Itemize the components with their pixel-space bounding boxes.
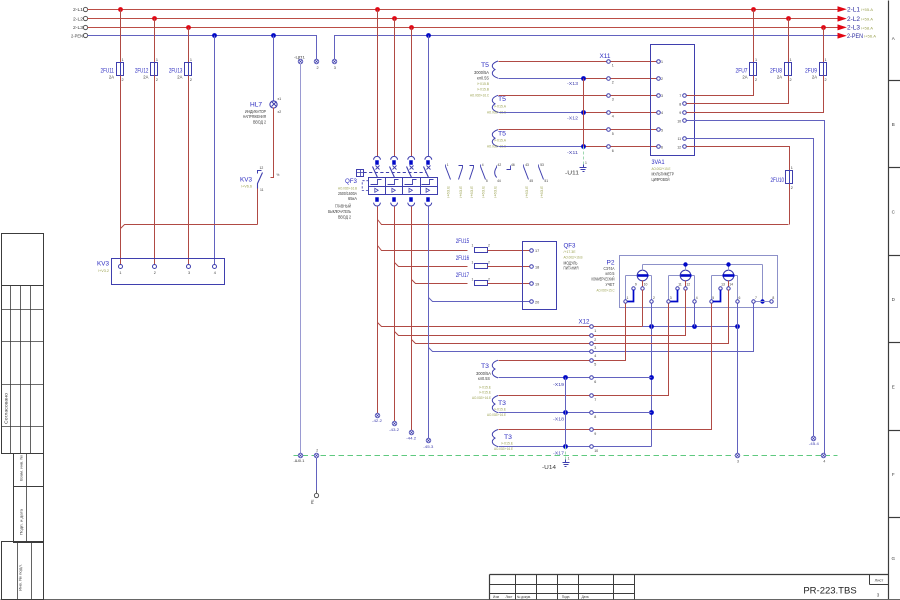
svg-text:17: 17 [535, 249, 539, 253]
terminal -45.3 [423, 438, 433, 449]
svg-text:2-PEN: 2-PEN [71, 34, 83, 39]
svg-text:2А: 2А [177, 74, 182, 79]
junction on bus for 2FU11 [118, 7, 123, 12]
svg-text:ЦИФРОВОЙ: ЦИФРОВОЙ [652, 177, 670, 182]
svg-text:9: 9 [594, 432, 596, 436]
ground bus PE (green dashed) [294, 455, 838, 457]
wire bus 2-PEN left segment [88, 36, 317, 60]
wire T3c S1 to X12:9 [499, 429, 590, 431]
circuit breaker QF3 2500/1600A main switch [328, 156, 438, 219]
wire X12:7 to meter 3 [594, 304, 669, 396]
svg-text:-Х12: -Х12 [567, 115, 579, 120]
junction on bus for 2FU7 [751, 7, 756, 12]
node 2-L1 incoming terminal [83, 7, 87, 11]
svg-text:-Х19: -Х19 [553, 382, 565, 387]
svg-text:2: 2 [594, 338, 596, 342]
svg-text:2: 2 [488, 260, 490, 264]
svg-text:G: G [892, 556, 896, 561]
svg-text:QF3: QF3 [345, 178, 358, 185]
meter jumper 3-11 [671, 290, 678, 302]
wire branch pole1 to 2FU10 net [378, 220, 789, 225]
svg-text:2FU10: 2FU10 [771, 177, 785, 184]
svg-text:53: 53 [540, 163, 544, 167]
wire 2FU11 to relay KV3 terminal [120, 76, 122, 265]
svg-text:%: % [277, 173, 280, 177]
wire L1 to QF3 pole 1 [375, 7, 380, 12]
svg-text:12: 12 [686, 283, 690, 287]
title block [490, 575, 889, 600]
svg-text:1: 1 [119, 271, 121, 275]
svg-text:5: 5 [712, 296, 714, 300]
wire branch pole3 to fuse 2FU17 [412, 280, 468, 284]
wire ground bus to PE stud [316, 458, 318, 491]
junction on bus for 2FU8 [786, 16, 791, 21]
svg-text:65кА: 65кА [348, 196, 357, 201]
wire T3b S2 to X12:8 via -X18 [499, 412, 590, 414]
wire branch pole2 to fuse 2FU16 [395, 263, 468, 267]
relay KV3 terminal block [97, 259, 225, 285]
wire T5b S1 to X11:3 [499, 95, 607, 97]
svg-text:3: 3 [670, 296, 672, 300]
wire bus to 2FU7 [753, 10, 755, 63]
svg-text:2-L1: 2-L1 [847, 7, 861, 13]
svg-text:/+Х15.В: /+Х15.В [477, 81, 489, 86]
wire T5a S1 to X11:1 [499, 61, 607, 63]
fuse 2FU7 2A [736, 58, 758, 82]
svg-text:10: 10 [644, 283, 648, 287]
multimeter 3VA1 digital [651, 45, 695, 183]
wire X12:9 to meter 5 [594, 304, 712, 430]
svg-text:2: 2 [190, 78, 192, 82]
terminal strip X11 [600, 54, 614, 153]
svg-text:7: 7 [594, 398, 596, 402]
svg-text:1: 1 [661, 60, 663, 64]
svg-text:PR-223.TBS: PR-223.TBS [803, 586, 856, 597]
wire QF3 pole2 down with branches [394, 207, 396, 422]
fuse 2FU10 [771, 166, 793, 190]
svg-text:1: 1 [627, 296, 629, 300]
terminal 4 on ground bus [821, 453, 826, 463]
terminal 3 on ground bus [735, 453, 740, 463]
meter voltage common wire [643, 262, 765, 303]
wire 2FU12 drop [154, 19, 156, 63]
svg-text:5: 5 [486, 179, 488, 183]
svg-text:3: 3 [334, 66, 336, 70]
svg-text:E: E [892, 385, 895, 390]
svg-text:2-L3: 2-L3 [847, 26, 861, 32]
wire CT common link -X13 -X12 -X11 [583, 79, 585, 147]
svg-text:46: 46 [511, 163, 515, 167]
svg-text:45: 45 [529, 179, 533, 183]
fuse 2FU9 2A [805, 58, 827, 82]
arrow 2-L2 out [838, 16, 873, 22]
svg-text:2: 2 [755, 78, 757, 82]
svg-text:1: 1 [585, 161, 587, 165]
svg-text:АО.002/+16.С: АО.002/+16.С [487, 109, 506, 114]
svg-text:/+V6.6: /+V6.6 [241, 184, 252, 189]
svg-text:Лист: Лист [875, 578, 884, 583]
wire T3b S1 to X12:7 [499, 395, 590, 397]
fuse 2FU17 [456, 272, 490, 286]
svg-text:43: 43 [525, 163, 529, 167]
svg-text:Подп.: Подп. [562, 595, 571, 599]
svg-text:Взам. инв. №: Взам. инв. № [20, 455, 24, 481]
wire 2FU10 down to y224 net [789, 184, 791, 225]
wire QF3 pole1 down with branches [377, 207, 379, 414]
svg-text:5: 5 [594, 363, 596, 367]
svg-text:2А: 2А [812, 74, 817, 79]
svg-text:4: 4 [594, 354, 596, 358]
terminal -43.2 [389, 421, 399, 432]
junction -X19 [553, 375, 568, 387]
svg-text:1: 1 [755, 58, 757, 62]
svg-text:2-L2: 2-L2 [847, 17, 861, 23]
wire branch pole3 to X12:3 [412, 340, 590, 344]
svg-text:2А: 2А [777, 74, 782, 79]
node 2-PEN incoming terminal [83, 33, 87, 37]
svg-text:кл0.5: кл0.5 [606, 271, 616, 276]
svg-text:3000/5А: 3000/5А [474, 70, 489, 75]
wire 2FU8 to 3VA1:8 [687, 76, 789, 104]
svg-text:2-L1: 2-L1 [73, 7, 83, 12]
svg-text:/+63.Е: /+63.Е [482, 185, 486, 198]
svg-text:4: 4 [214, 271, 216, 275]
svg-text:10: 10 [594, 449, 598, 453]
wire branch pole4 to module contact 20 [429, 298, 530, 302]
svg-text:2А: 2А [742, 74, 747, 79]
svg-text:Дата: Дата [581, 595, 588, 599]
svg-text:8: 8 [772, 296, 774, 300]
svg-text:1: 1 [791, 166, 793, 170]
fuse 2FU13 2A [169, 58, 192, 82]
current transformer T3 phase A [472, 360, 498, 400]
junction on bus for 2FU9 [821, 25, 826, 30]
svg-text:2-PEN: 2-PEN [847, 34, 863, 40]
power supply module of QF3 [523, 242, 583, 310]
terminal -42.2 [372, 413, 382, 423]
wires X11 to 3VA1 inputs [611, 62, 657, 147]
wire 3VA1:10 to ground bus terminal 4 [687, 121, 825, 454]
svg-text:2А: 2А [143, 74, 148, 79]
svg-text:2: 2 [316, 66, 318, 70]
wire 2FU13 drop [188, 28, 190, 63]
wire QF3 pole4 down with branches [428, 207, 430, 439]
wire T3a S1 to X12:5 [499, 360, 590, 362]
terminal 3 on PEN busbar [332, 59, 337, 70]
junction -X18 [553, 410, 568, 422]
svg-text:14: 14 [729, 283, 733, 287]
wire to ground -U14 (green) [565, 447, 567, 462]
svg-text:/+Х15.Е: /+Х15.Е [494, 407, 506, 412]
svg-text:1: 1 [122, 58, 124, 62]
wire X12:10 extension to common [594, 446, 652, 448]
svg-text:Т3: Т3 [481, 363, 490, 370]
wire bus to 2FU8 [788, 19, 790, 63]
wire T3a S2 to X12:6 via -X19 [499, 377, 590, 379]
wire X12:2 to meter 12 [594, 290, 686, 336]
wire meter 2 common drop [651, 304, 653, 447]
ground -U11 [565, 161, 587, 176]
svg-text:F: F [892, 472, 895, 477]
meter measuring element 3 [712, 265, 738, 300]
svg-text:-44.2: -44.2 [406, 435, 416, 440]
svg-text:18: 18 [535, 266, 539, 270]
wire 3VA1:11 to terminal -45.4 [687, 139, 814, 437]
junction on bus for 2FU13 [186, 25, 191, 30]
junction -X11 [567, 144, 586, 155]
terminal 2 on PEN busbar [314, 59, 319, 70]
current transformer T5 phase C [487, 130, 507, 149]
svg-text:ГЛАВНЫЙ: ГЛАВНЫЙ [335, 203, 351, 208]
svg-text:11: 11 [677, 137, 681, 141]
svg-text:-Х13: -Х13 [567, 81, 579, 86]
svg-text:-Ш0.1: -Ш0.1 [294, 458, 305, 463]
arrow 2-PEN out [838, 33, 876, 40]
wire X12:4 to meter 7 [594, 304, 754, 352]
svg-text:Подп. и дата: Подп. и дата [20, 508, 24, 535]
svg-text:42: 42 [498, 163, 502, 167]
svg-text:-45.4: -45.4 [809, 441, 820, 446]
svg-text:/+55.А: /+55.А [861, 7, 873, 12]
terminal strip X12 [579, 319, 599, 453]
svg-text:12: 12 [260, 166, 264, 170]
svg-text:х1: х1 [278, 97, 282, 101]
wire T5c S2 to X11:6 via -X11 [499, 146, 584, 148]
wire X12:6 extension to common [594, 377, 652, 379]
svg-text:/+63.Е: /+63.Е [494, 185, 498, 198]
svg-text:/+63.Е: /+63.Е [525, 185, 529, 198]
svg-text:3: 3 [594, 346, 596, 350]
svg-text:7: 7 [679, 94, 681, 98]
svg-text:АО.002/+15.С: АО.002/+15.С [597, 287, 615, 292]
svg-text:1: 1 [594, 329, 596, 333]
svg-text:1: 1 [472, 260, 474, 264]
wire PEN to KV3 terminal 4 [214, 36, 216, 265]
wire X12:5 to meter 1 [594, 304, 626, 361]
meter terminals row [624, 283, 775, 304]
svg-text:/+17.3Е: /+17.3Е [564, 249, 576, 254]
svg-text:1: 1 [156, 58, 158, 62]
wire bus 2-L3 [88, 27, 839, 29]
node 2-L3 incoming terminal [83, 25, 87, 29]
arrow 2-L3 out [838, 25, 873, 32]
contact KV3 auxiliary NO [240, 166, 264, 192]
svg-text:4: 4 [823, 459, 825, 463]
wire 2FU11 drop [120, 10, 122, 63]
arrow 2-L1 out [838, 7, 873, 14]
svg-text:2-L3: 2-L3 [73, 25, 83, 30]
svg-text:кл0.5S: кл0.5S [477, 75, 489, 80]
svg-text:/+56.А: /+56.А [864, 34, 876, 39]
wire bus 2-L1 [88, 9, 839, 11]
current transformer T3 phase C [492, 430, 513, 452]
wire branch pole2 to X12:2 [395, 332, 590, 336]
svg-text:9: 9 [635, 283, 637, 287]
wire 2FU17 to power module [488, 283, 530, 285]
wire T5a S2 to X11:2 via -X13 [499, 78, 584, 80]
wire 2FU15 to power module [488, 250, 530, 252]
wire meter 6 drop to ground bus terminal 3 [737, 304, 739, 454]
current transformer T3 phase B [487, 396, 507, 418]
junction -X17 [553, 444, 568, 456]
svg-text:1: 1 [472, 277, 474, 281]
svg-text:11: 11 [678, 283, 682, 287]
sheet right border with zone letters [889, 1, 900, 600]
svg-text:2: 2 [122, 78, 124, 82]
wire L2 to QF3 pole 2 [392, 16, 397, 21]
svg-text:/+Х15.Е: /+Х15.Е [479, 389, 491, 394]
svg-text:ВВОД 2: ВВОД 2 [253, 119, 266, 124]
svg-text:3: 3 [737, 459, 739, 463]
svg-text:/+58.А: /+58.А [861, 25, 873, 30]
svg-text:/+63.Е: /+63.Е [459, 185, 463, 198]
wire bus 2-L2 [88, 18, 839, 20]
svg-text:6: 6 [739, 296, 741, 300]
svg-text:20: 20 [535, 300, 539, 304]
wire branch pole1 to fuse 2FU15 [378, 246, 468, 251]
svg-text:9: 9 [679, 111, 681, 115]
meter measuring element 2 [669, 265, 695, 300]
svg-text:2: 2 [790, 78, 792, 82]
junction -X12 [567, 110, 586, 120]
svg-text:4: 4 [612, 115, 614, 119]
svg-text:2: 2 [488, 244, 490, 248]
wire X12:8 extension to common [594, 412, 652, 414]
wire bus to 2FU9 [823, 28, 825, 63]
svg-text:51: 51 [544, 179, 548, 183]
svg-text:5: 5 [661, 128, 663, 132]
wire 3VA1:12 to fuse 2FU10 [687, 147, 790, 171]
wire to ground -U11 (green) [583, 147, 585, 167]
svg-text:АО.002/+15.Е: АО.002/+15.Е [652, 166, 671, 171]
wire branch pole1 to X12:1 [378, 323, 590, 327]
svg-text:-Х11: -Х11 [567, 150, 579, 155]
wire 2FU12 to relay KV3 terminal [154, 76, 156, 265]
svg-text:2FU16: 2FU16 [456, 255, 470, 262]
node 2-L2 incoming terminal [83, 16, 87, 20]
wire 2FU13 to relay KV3 terminal [188, 76, 190, 265]
svg-text:ПИТАНИЯ: ПИТАНИЯ [564, 266, 579, 271]
svg-text:6: 6 [661, 146, 663, 150]
wire branch 2FU11 to KV3 aux contact [121, 225, 258, 229]
svg-text:/+Х15.А: /+Х15.А [494, 103, 506, 108]
svg-text:Согласовано: Согласовано [4, 392, 9, 424]
svg-text:2: 2 [661, 77, 663, 81]
svg-text:/+63.Е: /+63.Е [470, 185, 474, 198]
wire 2FU9 to 3VA1:9 [687, 112, 822, 114]
meter jumper 1-9 [628, 290, 634, 302]
svg-text:ВВОД 2: ВВОД 2 [338, 214, 351, 219]
current transformer T5 phase A [470, 61, 498, 97]
svg-text:2А: 2А [109, 74, 114, 79]
svg-text:44: 44 [497, 179, 501, 183]
wire meter 4 drop [694, 304, 696, 327]
svg-text:х2: х2 [278, 110, 282, 114]
wire PEN to QF3 pole 4 [426, 33, 431, 38]
svg-text:РЕ: РЕ [311, 499, 315, 504]
junction on PEN for KV3 [212, 33, 217, 38]
svg-text:/+63.Е: /+63.Е [447, 185, 451, 198]
svg-text:АО.002/+16.В: АО.002/+16.В [564, 255, 583, 260]
svg-text:3: 3 [612, 98, 614, 102]
wire QF3 pole3 down with branches [411, 207, 413, 431]
svg-text:№ докум.: № докум. [517, 595, 531, 599]
svg-text:13: 13 [721, 283, 725, 287]
svg-text:Лист: Лист [506, 595, 513, 599]
svg-text:2: 2 [653, 296, 655, 300]
svg-text:B: B [892, 122, 895, 127]
wire L3 to QF3 pole 3 [409, 25, 414, 30]
sheet bottom border [1, 599, 900, 600]
current transformer T5 phase B [487, 95, 507, 114]
svg-text:1: 1 [825, 58, 827, 62]
svg-text:Инв. № подл.: Инв. № подл. [19, 564, 23, 591]
wire X12:1 common to meter 10 and CT commons [594, 290, 740, 329]
lamp HL7 indicator [243, 97, 281, 125]
svg-text:8: 8 [594, 415, 596, 419]
svg-text:-Х17: -Х17 [553, 451, 565, 456]
ground -U14 [542, 457, 570, 471]
svg-text:2FU17: 2FU17 [456, 272, 470, 279]
svg-text:4: 4 [696, 296, 698, 300]
svg-text:-45.3: -45.3 [423, 444, 433, 449]
svg-text:МУЛЬТИМЕТР: МУЛЬТИМЕТР [652, 172, 675, 177]
svg-text:1: 1 [568, 457, 570, 461]
fuse 2FU15 [456, 238, 490, 253]
wire T5c S1 to X11:5 [499, 129, 607, 131]
svg-text:Х12: Х12 [579, 319, 591, 325]
svg-text:19: 19 [535, 283, 539, 287]
svg-text:ВЫКЛЮЧАТЕЛЬ: ВЫКЛЮЧАТЕЛЬ [328, 209, 351, 214]
svg-text:5: 5 [612, 132, 614, 136]
junction on PEN for HL7 [271, 33, 276, 38]
svg-text:KV3: KV3 [97, 260, 110, 267]
wire KV3 aux contact riser [257, 189, 259, 225]
svg-text:/+63.Е: /+63.Е [540, 185, 544, 198]
svg-text:3: 3 [188, 271, 190, 275]
terminal -44.2 [406, 430, 416, 440]
svg-text:6: 6 [594, 380, 596, 384]
svg-text:10: 10 [677, 119, 681, 123]
svg-text:KV3: KV3 [240, 176, 253, 183]
energy meter P2 commercial metering [592, 256, 778, 308]
fuse 2FU16 [456, 255, 490, 269]
auxiliary contacts of QF3 [446, 163, 549, 198]
svg-text:-U14: -U14 [542, 465, 556, 471]
junction on bus for 2FU12 [152, 16, 157, 21]
svg-text:4: 4 [482, 163, 484, 167]
meter jumper 5-13 [713, 290, 721, 302]
svg-text:11: 11 [260, 188, 264, 192]
svg-text:8: 8 [679, 102, 681, 106]
svg-text:АО.002/+16.Е: АО.002/+16.Е [472, 395, 491, 400]
terminal -ЦП1 on PEN busbar [294, 55, 306, 64]
wire T3c S2 to X12:10 via -X17 [499, 446, 590, 448]
fuse 2FU8 2A [770, 58, 792, 82]
terminal 2 on ground bus [314, 449, 319, 458]
svg-text:1: 1 [190, 58, 192, 62]
svg-text:-U11: -U11 [565, 171, 579, 177]
fuse 2FU12 2A [135, 58, 158, 82]
PE stud [311, 493, 319, 504]
svg-text:1: 1 [472, 244, 474, 248]
wire -ЦП1 down to -Ш0.1 [300, 64, 302, 454]
svg-text:/+Х15.Е: /+Х15.Е [501, 441, 513, 446]
wire 2FU7 to 3VA1:7 [687, 76, 754, 96]
svg-text:1: 1 [790, 58, 792, 62]
svg-text:12: 12 [677, 145, 681, 149]
fuse 2FU11 2A [101, 58, 124, 82]
